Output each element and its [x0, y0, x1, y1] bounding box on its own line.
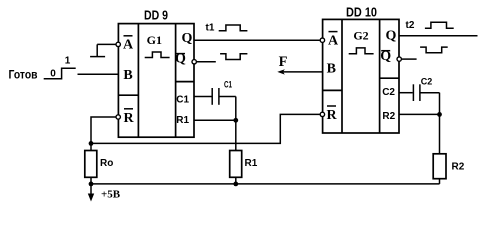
svg-text:0: 0: [50, 69, 56, 80]
resistor Ro body: [85, 151, 97, 178]
arrowhead of +5V arrow: [88, 194, 94, 202]
wire: R1 to +5V rail: [235, 177, 237, 184]
wire: reset rail to DD10 R-bar: [91, 114, 320, 143]
wire: +5V rail: [91, 183, 440, 185]
arrowhead of F wire: [277, 69, 285, 74]
svg-text:R2: R2: [452, 162, 465, 173]
wire: Q-bar stub of DD10: [402, 58, 417, 60]
op-amp U1 : IC DD9 outline: [118, 24, 194, 138]
waveform G1 pulse symbol: [145, 52, 170, 58]
svg-text:t1: t1: [206, 23, 215, 34]
wire: capacitor C1 to node: [219, 96, 236, 98]
wire: R1 pin of DD9 to node: [194, 119, 236, 121]
capacitor C2 right plate: [419, 84, 421, 101]
wire: R2 pin of DD10 to node: [399, 113, 440, 115]
svg-text:R1: R1: [176, 115, 189, 126]
svg-text:A: A: [123, 38, 134, 53]
waveform t2 positive pulse: [425, 22, 454, 28]
svg-text:R: R: [123, 111, 134, 126]
DD10 output field divider: [379, 19, 381, 133]
wire: R2 to +5V rail: [439, 179, 441, 184]
wire: Ro to +5V rail: [90, 177, 92, 184]
capacitor C1 right plate: [218, 88, 220, 105]
wire: Q of DD10 output: [399, 35, 478, 37]
inversion bubble Q-bar DD10: [397, 57, 401, 61]
svg-text:F: F: [279, 54, 288, 70]
junction node at R1 / +5V rail: [233, 182, 238, 187]
svg-text:Q: Q: [386, 29, 397, 44]
svg-text:Готов: Готов: [9, 68, 38, 82]
junction node at R-bar rail / Ro: [89, 141, 94, 146]
svg-text:B: B: [123, 68, 132, 83]
wire: C2 node down through R2 pin node: [439, 93, 441, 154]
DD9 right field split line: [176, 81, 194, 83]
wire: Gotov step low level: [44, 68, 76, 79]
svg-text:G2: G2: [353, 29, 368, 43]
wire: Q of DD9 to A-bar of DD10: [194, 39, 320, 41]
wire: A-bar input symbol vertical: [96, 44, 98, 56]
svg-text:C2: C2: [421, 77, 433, 87]
svg-text:C1: C1: [224, 80, 232, 90]
svg-text:R2: R2: [382, 111, 395, 122]
resistor R2 body: [433, 154, 446, 179]
svg-text:DD 9: DD 9: [144, 7, 168, 22]
wire: C1 pin of DD9 to capacitor C1: [194, 96, 212, 98]
svg-text:DD 10: DD 10: [346, 4, 377, 19]
svg-text:+5В: +5В: [101, 189, 121, 201]
svg-text:R: R: [326, 108, 337, 123]
svg-text:C1: C1: [176, 94, 189, 105]
inversion bubble R-bar DD9: [116, 115, 120, 119]
wire: Q-bar stub of DD9: [197, 61, 216, 63]
wire: B input of DD9: [78, 73, 119, 75]
DD10 right field split line: [380, 77, 399, 79]
DD9 left field divider: [137, 24, 139, 138]
svg-text:A: A: [328, 34, 339, 49]
capacitor C2 left plate: [412, 84, 414, 101]
svg-text:R1: R1: [245, 158, 258, 169]
junction node at Ro / +5V rail: [89, 182, 94, 187]
resistor R1 body: [230, 151, 242, 178]
capacitor C1 left plate: [211, 88, 213, 105]
junction node at R1 pin: [233, 118, 238, 123]
inversion bubble Q-bar DD9: [192, 60, 196, 64]
svg-text:Ro: Ro: [100, 158, 113, 169]
svg-text:C2: C2: [382, 87, 395, 98]
IC DD10 outline: [323, 19, 399, 133]
inversion bubble A-bar DD10: [320, 38, 324, 42]
wire: A-bar input symbol bar of DD9: [90, 56, 105, 58]
junction node at R2 pin: [437, 112, 442, 117]
DD9 left field split line: [118, 94, 138, 96]
svg-text:G1: G1: [147, 33, 162, 47]
inversion bubble R-bar DD10: [320, 112, 324, 116]
wire: capacitor C2 to node: [420, 92, 440, 94]
svg-text:t2: t2: [406, 20, 415, 31]
svg-text:Q: Q: [181, 31, 192, 46]
DD9 output field divider: [175, 24, 177, 138]
wire: node down to resistor R1: [235, 97, 237, 151]
DD10 left field split line: [323, 89, 342, 91]
wire: C2 pin of DD10 to capacitor C2: [399, 92, 413, 94]
waveform t2 negative pulse: [420, 47, 448, 53]
wire: F output from B of DD10: [281, 71, 323, 73]
waveform G2 pulse symbol: [349, 48, 374, 54]
wire: +5V arrow stem: [90, 184, 92, 197]
waveform t1 negative pulse: [220, 54, 247, 60]
inversion bubble A-bar DD9: [116, 42, 120, 46]
wire: R-bar input of DD9: [91, 117, 116, 151]
svg-text:1: 1: [65, 56, 71, 67]
waveform t1 positive pulse: [219, 25, 248, 31]
svg-text:B: B: [327, 61, 336, 76]
DD10 left field divider: [341, 19, 343, 133]
wire: A-bar input wire into DD9: [97, 43, 115, 45]
